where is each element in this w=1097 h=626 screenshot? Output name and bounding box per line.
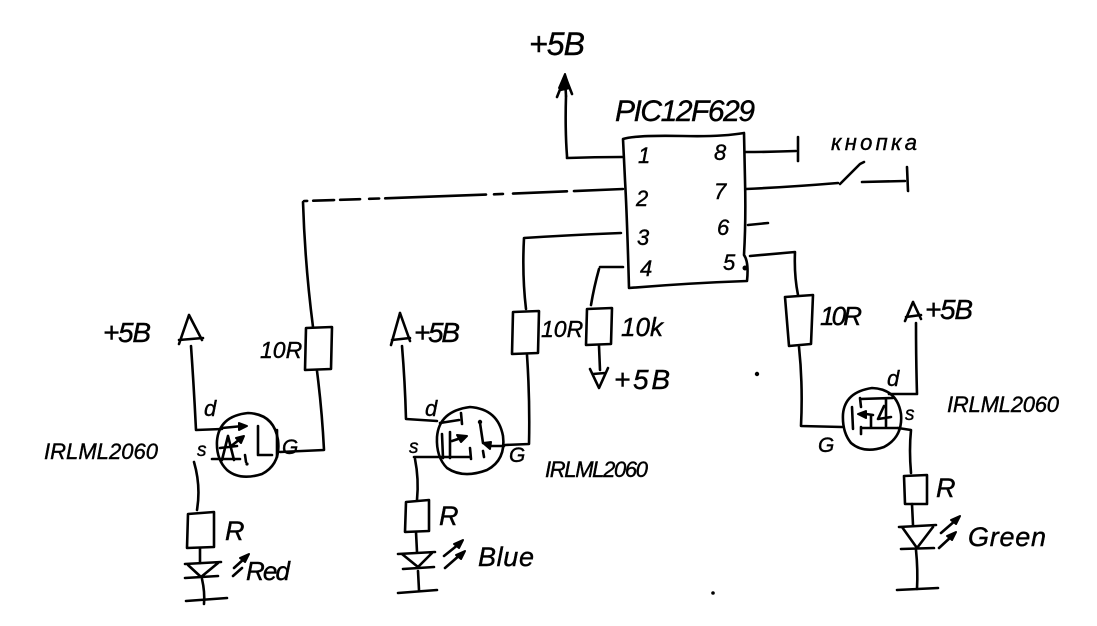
power +5V arrow (right) bbox=[905, 302, 921, 321]
svg-text:1: 1 bbox=[638, 143, 650, 168]
transistor Q1 IRLML2060 body bbox=[217, 413, 278, 477]
svg-text:3: 3 bbox=[637, 225, 650, 250]
resistor R (middle) bbox=[405, 500, 429, 532]
ground (middle) bbox=[398, 590, 437, 593]
power +5V arrow (middle) bbox=[391, 313, 410, 345]
svg-text:Red: Red bbox=[246, 556, 292, 586]
power arrow (below 10k, points down) bbox=[590, 368, 608, 388]
resistor 10R (middle) bbox=[512, 311, 539, 354]
svg-text:2: 2 bbox=[635, 186, 648, 211]
transistor Q3 internals bbox=[852, 398, 898, 434]
resistor R (left) bbox=[187, 512, 214, 548]
svg-text:d: d bbox=[425, 396, 438, 421]
transistor Q3 IRLML2060 body bbox=[843, 388, 901, 450]
terminal bar pin 8 bbox=[797, 137, 800, 161]
stray ink dot (below 10k) bbox=[711, 591, 715, 595]
svg-text:+5B: +5B bbox=[529, 26, 585, 62]
svg-text:10R: 10R bbox=[260, 337, 302, 363]
wire R right to LED bbox=[912, 504, 913, 525]
stray ink dot (right of IC) bbox=[755, 372, 759, 376]
ground (right) bbox=[897, 588, 938, 590]
wire source Q2 to resistor R middle bbox=[415, 459, 418, 500]
svg-text:6: 6 bbox=[717, 215, 730, 240]
wire R middle to LED bbox=[416, 532, 417, 552]
wire source Q3 to resistor R right bbox=[898, 428, 911, 473]
wire pin 4 to resistor 10k bbox=[591, 267, 623, 305]
resistor 10k bbox=[586, 308, 612, 345]
resistor R (right) bbox=[904, 475, 927, 504]
IC U1 PIC12F629 body bbox=[623, 133, 748, 288]
wire source Q1 to resistor R left bbox=[194, 462, 198, 510]
wire +5V to drain Q2 bbox=[402, 346, 437, 421]
resistor 10R (left) bbox=[305, 327, 332, 370]
svg-text:+5B: +5B bbox=[103, 317, 151, 348]
svg-text:10k: 10k bbox=[621, 312, 665, 342]
svg-text:5: 5 bbox=[723, 250, 736, 275]
switch S1 wire from pin 7 bbox=[746, 183, 838, 189]
wire drain Q3 to +5V bbox=[889, 323, 917, 394]
svg-text:d: d bbox=[204, 396, 217, 421]
svg-text:IRLML2060: IRLML2060 bbox=[947, 392, 1060, 417]
svg-text:8: 8 bbox=[714, 140, 727, 165]
wire 10R middle to gate Q2 bbox=[505, 355, 529, 445]
wire +5V top to pin 1 bbox=[566, 96, 622, 158]
wire pin 8 to terminal bbox=[746, 151, 796, 152]
svg-text:IRLML2060: IRLML2060 bbox=[545, 457, 649, 482]
LED D2 (Blue) bbox=[398, 540, 465, 569]
wire +5V to drain Q1 bbox=[191, 346, 222, 430]
svg-text:G: G bbox=[282, 436, 298, 459]
svg-text:PIC12F629: PIC12F629 bbox=[615, 95, 755, 128]
svg-text:+5B: +5B bbox=[925, 294, 973, 325]
svg-text:s: s bbox=[905, 404, 915, 425]
transistor Q1 internals bbox=[212, 423, 277, 466]
LED D3 (Green) bbox=[899, 516, 960, 549]
switch S1 right wire bbox=[862, 181, 905, 182]
terminal bar switch bbox=[907, 167, 908, 191]
wire pin 3 to resistor 10R middle bbox=[523, 233, 621, 309]
transistor Q2 IRLML2060 body bbox=[437, 407, 503, 474]
wire R left to LED bbox=[199, 548, 202, 563]
svg-text:7: 7 bbox=[714, 179, 727, 204]
svg-text:G: G bbox=[509, 444, 525, 467]
svg-text:4: 4 bbox=[640, 256, 652, 281]
transistor Q2 internals bbox=[414, 413, 504, 459]
svg-text:R: R bbox=[936, 473, 956, 503]
svg-text:R: R bbox=[225, 516, 245, 546]
wire 10k to power arrow bbox=[599, 346, 600, 370]
svg-text:R: R bbox=[439, 501, 459, 531]
wire pin 2 to resistor 10R left bbox=[304, 189, 623, 201]
svg-text:IRLML2060: IRLML2060 bbox=[44, 439, 159, 464]
power +5V arrow (left) bbox=[179, 315, 203, 344]
svg-text:10R: 10R bbox=[541, 316, 583, 342]
LED D1 (Red) bbox=[185, 554, 249, 578]
svg-text:+5B: +5B bbox=[614, 364, 670, 395]
wire 10R right to gate Q3 bbox=[799, 347, 842, 427]
power +5V arrow (top) bbox=[557, 74, 572, 97]
resistor 10R (right) bbox=[785, 295, 813, 346]
svg-text:10R: 10R bbox=[820, 301, 862, 331]
wire LED middle to ground bbox=[418, 571, 419, 590]
ground (left) bbox=[186, 598, 227, 601]
svg-text:+5B: +5B bbox=[414, 317, 460, 348]
switch S1 lever bbox=[840, 162, 864, 184]
wire pin 6 stub bbox=[748, 223, 768, 225]
wire pin 5 to resistor 10R right bbox=[750, 252, 798, 295]
svg-text:s: s bbox=[197, 440, 207, 461]
svg-text:G: G bbox=[818, 434, 834, 457]
wire LED right to ground bbox=[916, 550, 917, 589]
svg-text:s: s bbox=[409, 437, 419, 458]
wire LED left to ground bbox=[202, 579, 204, 604]
svg-text:d: d bbox=[887, 366, 900, 391]
svg-text:Blue: Blue bbox=[478, 542, 534, 572]
svg-text:Green: Green bbox=[968, 522, 1046, 552]
wire 10R left to gate Q1 bbox=[280, 371, 324, 452]
